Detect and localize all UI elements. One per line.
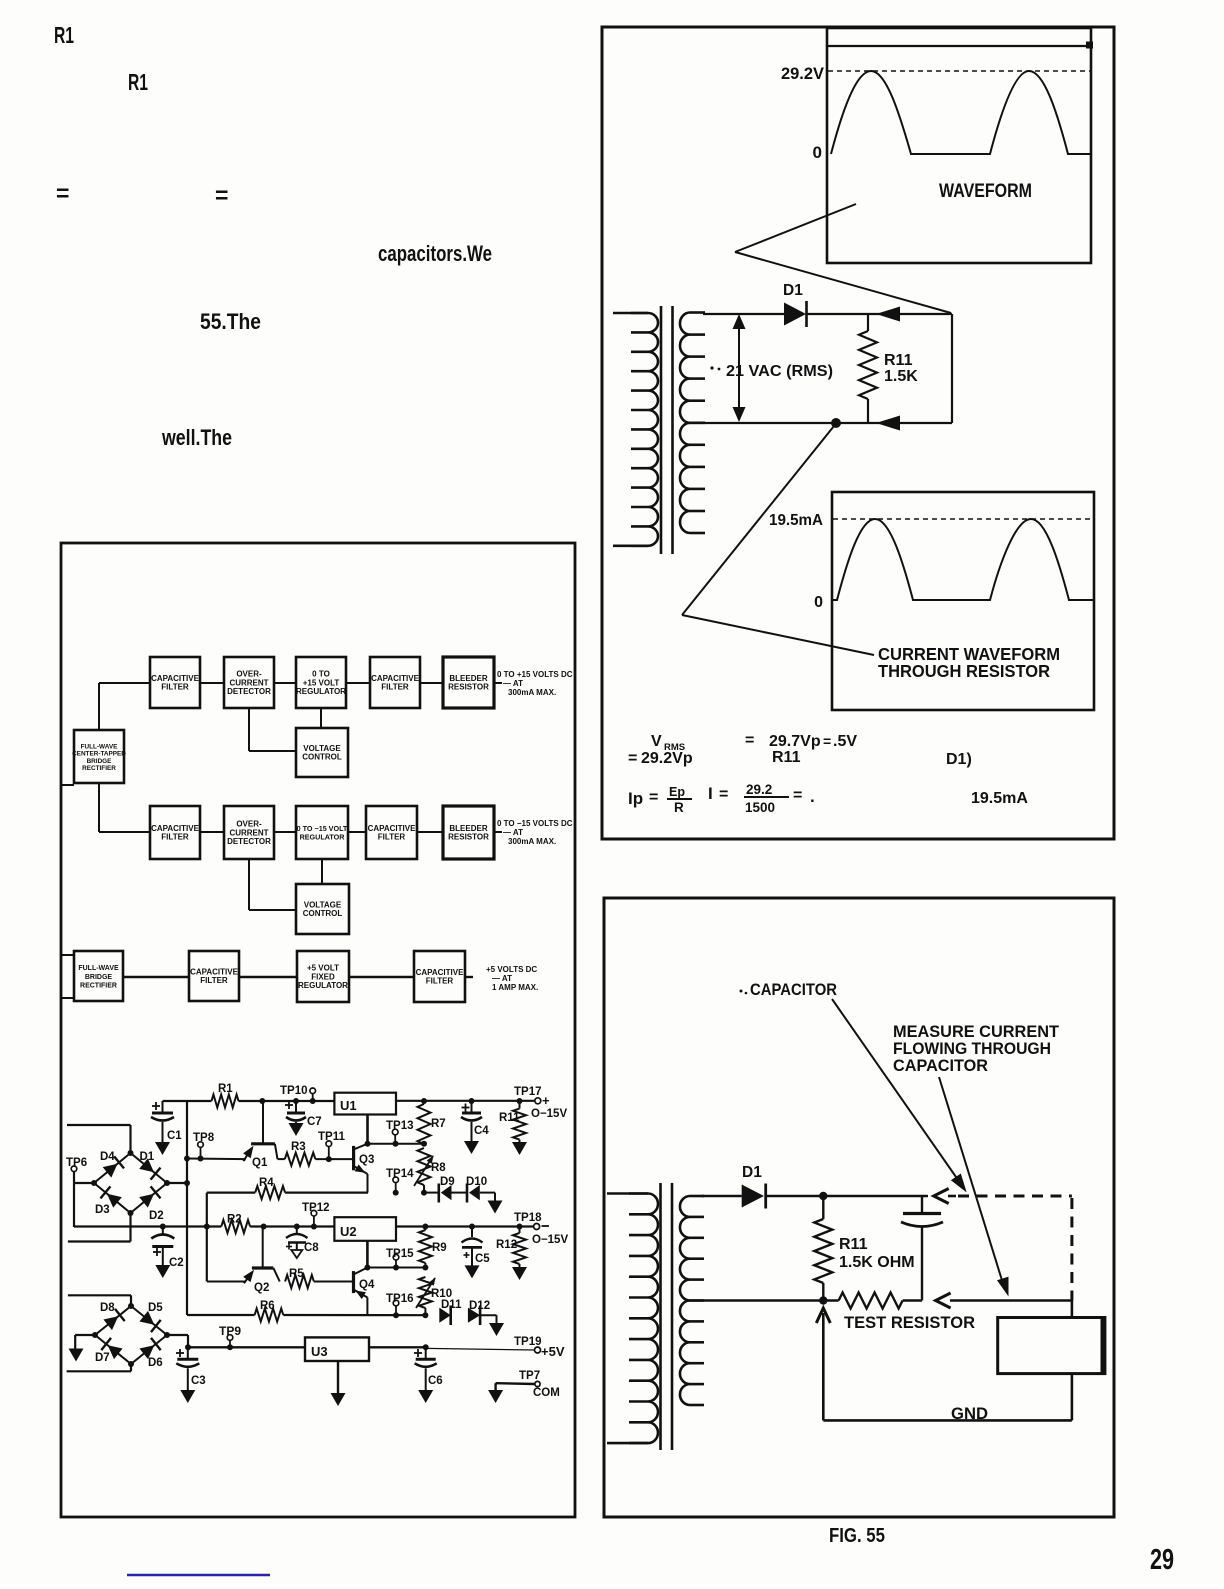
svg-text:Ep: Ep — [669, 785, 685, 799]
row3 left stubs — [61, 955, 74, 998]
block row1: voltage control — [296, 728, 348, 777]
svg-text:R1: R1 — [218, 1083, 233, 1095]
transistor Q3 — [354, 1115, 371, 1193]
label CAPACITOR — [740, 980, 838, 999]
svg-text:TP9: TP9 — [219, 1324, 241, 1338]
label GND — [951, 1404, 988, 1423]
label D7 — [95, 1352, 110, 1364]
main positive bus (vertical) — [186, 1101, 188, 1315]
svg-text:TP14: TP14 — [386, 1168, 414, 1180]
resistor R5 — [285, 1275, 353, 1288]
row1 output label 0 TO +15 VOLTS DC — [497, 670, 573, 697]
svg-text:— AT: — AT — [503, 828, 523, 837]
U3 ground — [331, 1361, 346, 1406]
svg-text:.: . — [810, 787, 815, 806]
bridge1 bottom stub — [68, 1213, 131, 1242]
svg-text:BRIDGE: BRIDGE — [87, 758, 113, 765]
svg-text:TEST RESISTOR: TEST RESISTOR — [844, 1313, 975, 1332]
label D1) — [946, 751, 972, 768]
svg-text:R11: R11 — [839, 1236, 868, 1253]
bridge rectifier diodes D5-D8 (diamond) — [92, 1303, 170, 1367]
svg-text:R6: R6 — [260, 1300, 275, 1312]
diode D1 (fig C) — [742, 1184, 766, 1209]
svg-text:D2: D2 — [149, 1210, 164, 1222]
capacitor C1 — [151, 1101, 182, 1155]
svg-text:R1: R1 — [128, 69, 148, 95]
label Q3 — [359, 1154, 374, 1166]
svg-text:FIG. 55: FIG. 55 — [829, 1525, 885, 1547]
svg-text:1.5K: 1.5K — [884, 368, 918, 385]
svg-text:TP18: TP18 — [514, 1212, 542, 1224]
transformer T1 secondary winding — [680, 313, 705, 534]
text fragment well.The — [161, 425, 232, 450]
bridge1 top stub to transformer — [67, 1125, 131, 1153]
svg-text:TP6: TP6 — [66, 1157, 87, 1169]
svg-text:R11: R11 — [772, 749, 801, 766]
resistor R11 (fig C) — [814, 1196, 832, 1301]
regulator U1 — [334, 1093, 396, 1115]
svg-text:DETECTOR: DETECTOR — [227, 687, 271, 696]
svg-text:0: 0 — [813, 143, 822, 162]
svg-text:C5: C5 — [475, 1253, 490, 1265]
resistor R4 — [207, 1186, 368, 1199]
svg-text:+: + — [542, 1093, 550, 1108]
block row1: 0 to +15 volt regulator — [296, 657, 346, 708]
label R11 1.5K — [884, 352, 918, 385]
svg-text:.5V: .5V — [833, 733, 857, 750]
transistor Q2 — [207, 1224, 280, 1284]
svg-text:D9: D9 — [440, 1176, 455, 1188]
svg-text:D1): D1) — [946, 751, 972, 768]
block row1: capacitive filter (output) — [370, 657, 420, 708]
svg-text:300mA MAX.: 300mA MAX. — [508, 688, 556, 697]
svg-text:FULL-WAVE: FULL-WAVE — [78, 965, 119, 972]
19.5mA dashed peak line — [833, 518, 1094, 520]
svg-text:D4: D4 — [100, 1151, 115, 1163]
wire: secondary to D1 — [702, 1195, 742, 1198]
capacitor (fig C) — [901, 1196, 943, 1301]
label R11 1.5K OHM — [839, 1236, 915, 1271]
svg-text:R: R — [674, 800, 684, 815]
wire: D1 cathode to right branch — [807, 313, 953, 315]
ground after D12 — [480, 1315, 504, 1336]
text fragment = (second) — [215, 182, 228, 208]
test point TP6 — [66, 1157, 94, 1227]
svg-text:TP13: TP13 — [386, 1120, 414, 1132]
svg-text:R5: R5 — [289, 1268, 304, 1280]
text fragment R1 (second) — [128, 69, 148, 95]
svg-text:=: = — [719, 786, 728, 803]
svg-text:— AT: — AT — [503, 679, 523, 688]
TP15 rail — [367, 1267, 425, 1269]
test point TP16 — [386, 1293, 414, 1318]
svg-text:C7: C7 — [307, 1116, 322, 1128]
svg-text:REGULATOR: REGULATOR — [298, 981, 348, 990]
svg-text:D8: D8 — [100, 1302, 115, 1314]
label D1 (fig C) — [742, 1164, 762, 1181]
svg-text:RESISTOR: RESISTOR — [448, 683, 489, 692]
svg-text:=: = — [793, 787, 802, 804]
block: full-wave center-tapped bridge rectifier — [72, 730, 126, 783]
svg-text:Ip: Ip — [628, 789, 643, 808]
svg-text:=: = — [823, 733, 831, 749]
29.2V dashed peak line — [828, 70, 1091, 72]
diode D9 — [421, 1184, 452, 1203]
label R12 — [496, 1239, 517, 1251]
svg-text:C3: C3 — [191, 1375, 206, 1387]
svg-text:TP12: TP12 — [302, 1202, 330, 1214]
svg-text:D3: D3 — [95, 1204, 110, 1216]
svg-text:R3: R3 — [291, 1141, 306, 1153]
resistor R1 — [212, 1095, 239, 1108]
capacitor C7 — [285, 1098, 322, 1136]
svg-text:D7: D7 — [95, 1352, 110, 1364]
svg-text:I: I — [708, 784, 713, 803]
svg-text:TP7: TP7 — [519, 1370, 540, 1382]
label 0 (current) — [814, 594, 823, 611]
svg-text:TP19: TP19 — [514, 1336, 542, 1348]
label R10 — [431, 1288, 452, 1300]
svg-text:FILTER: FILTER — [378, 833, 406, 842]
rail U2 output — [396, 1225, 534, 1227]
current waveform scope box — [832, 492, 1094, 710]
block row1: capacitive filter — [150, 657, 200, 708]
label Q1 — [252, 1157, 268, 1169]
svg-text:29.2V: 29.2V — [781, 64, 825, 83]
svg-text:WAVEFORM: WAVEFORM — [939, 181, 1032, 202]
label R8 — [431, 1162, 446, 1174]
label D3 — [95, 1204, 110, 1216]
svg-text:+5 VOLTS DC: +5 VOLTS DC — [486, 965, 537, 974]
svg-text:D11: D11 — [441, 1299, 462, 1311]
equation Vrms = 29.2Vp — [628, 733, 693, 767]
label R9 — [432, 1242, 447, 1254]
transformer T2 primary winding — [607, 1194, 658, 1444]
diode D1 — [784, 301, 807, 327]
svg-text:29.2: 29.2 — [746, 782, 772, 797]
transformer T1 core — [661, 306, 673, 554]
label Q4 — [359, 1279, 375, 1291]
text fragment capacitors.We — [378, 241, 492, 266]
label D6 — [148, 1357, 163, 1369]
label R11 — [499, 1112, 520, 1124]
wire meter to dashed path — [1071, 1301, 1074, 1318]
block row3: full-wave bridge rectifier — [74, 951, 123, 1001]
diode D10 — [452, 1184, 496, 1203]
rail U1 output — [396, 1100, 535, 1102]
svg-text:0 TO +15 VOLTS DC: 0 TO +15 VOLTS DC — [497, 670, 573, 679]
equation = 29.7Vp = .5V over R11 — [745, 732, 857, 766]
label D8 — [100, 1302, 115, 1314]
rail to R7/C4/TP17 components — [469, 1098, 523, 1104]
transformer T1 primary winding — [613, 313, 658, 546]
svg-text:C6: C6 — [428, 1375, 443, 1387]
svg-text:FILTER: FILTER — [426, 977, 454, 986]
caption FIG. 55 — [829, 1525, 885, 1547]
block row2: bleeder resistor — [443, 806, 494, 859]
svg-text:U1: U1 — [340, 1098, 357, 1113]
block row2: 0 to -15 volt regulator — [296, 806, 348, 859]
svg-text:CAPACITOR: CAPACITOR — [750, 980, 837, 999]
test point TP9 — [219, 1324, 241, 1350]
svg-text:R4: R4 — [259, 1177, 274, 1189]
svg-text:D1: D1 — [783, 282, 803, 299]
test point TP18 — [514, 1212, 568, 1246]
label TEST RESISTOR — [844, 1313, 975, 1332]
svg-text:D1: D1 — [140, 1151, 155, 1163]
bridge1 right corner to bus — [167, 1180, 190, 1186]
regulator U2 — [334, 1217, 396, 1241]
R6 rail — [187, 1314, 255, 1316]
GND return wire — [823, 1374, 1072, 1421]
svg-text:TP8: TP8 — [193, 1132, 215, 1144]
label R4 — [259, 1177, 274, 1189]
transformer T2 secondary winding — [680, 1196, 704, 1405]
label D10 — [466, 1176, 487, 1188]
capacitor C8 — [286, 1224, 319, 1259]
svg-text:R1: R1 — [54, 22, 74, 48]
label D1 — [783, 282, 803, 299]
svg-text:well.The: well.The — [161, 425, 232, 450]
current waveform trace — [833, 519, 1094, 600]
svg-text:Q1: Q1 — [252, 1157, 268, 1169]
label D4 — [100, 1151, 115, 1163]
callout lines to current waveform box — [682, 426, 874, 655]
block row1: over-current detector — [224, 657, 274, 708]
junction node — [831, 418, 841, 428]
svg-text:R12: R12 — [496, 1239, 517, 1251]
svg-text:C4: C4 — [474, 1125, 489, 1137]
capacitor C4 — [461, 1101, 489, 1154]
svg-text:1500: 1500 — [745, 800, 775, 815]
svg-text:GND: GND — [951, 1404, 988, 1423]
test point TP7 COM — [488, 1370, 560, 1403]
svg-text:Q2: Q2 — [254, 1282, 269, 1294]
test point TP11 — [318, 1131, 345, 1162]
figure box B border — [61, 543, 575, 1517]
svg-text:29.2Vp: 29.2Vp — [641, 750, 693, 767]
blue underline mark — [127, 1574, 270, 1576]
svg-text:=: = — [628, 750, 637, 767]
svg-text:O−15V: O−15V — [531, 1108, 567, 1120]
svg-text:CAPACITOR: CAPACITOR — [893, 1056, 988, 1075]
test point TP19 +5V — [514, 1336, 565, 1359]
label D9 — [440, 1176, 455, 1188]
svg-text:29: 29 — [1150, 1544, 1174, 1576]
svg-text:DETECTOR: DETECTOR — [227, 837, 271, 846]
label R2 — [227, 1214, 242, 1226]
svg-text:CONTROL: CONTROL — [302, 753, 342, 762]
label R5 — [289, 1268, 304, 1280]
svg-text:D1: D1 — [742, 1164, 762, 1181]
waveform scope box — [827, 28, 1093, 263]
svg-text:CENTER-TAPPED: CENTER-TAPPED — [72, 751, 126, 758]
svg-text:COM: COM — [533, 1387, 560, 1399]
+5V rail — [188, 1346, 305, 1348]
svg-text:29.7Vp: 29.7Vp — [769, 733, 821, 750]
svg-text:REGULATOR: REGULATOR — [300, 833, 346, 842]
svg-text:D12: D12 — [469, 1300, 490, 1312]
test point TP12 — [302, 1202, 330, 1230]
label D2 — [149, 1210, 164, 1222]
dashed measurement path — [958, 1196, 1072, 1301]
page number 29 — [1150, 1544, 1174, 1576]
svg-text:O−15V: O−15V — [532, 1234, 568, 1246]
arrow into top node — [934, 1189, 956, 1204]
test point TP17 — [514, 1086, 567, 1120]
row1 wires — [99, 683, 502, 751]
test point TP8 — [193, 1132, 215, 1162]
svg-text:FILTER: FILTER — [200, 976, 228, 985]
resistor R3 — [285, 1153, 354, 1166]
svg-text:+5V: +5V — [541, 1344, 565, 1359]
resistor R12 — [512, 1224, 527, 1281]
svg-text:C2: C2 — [169, 1257, 184, 1269]
svg-text:CONTROL: CONTROL — [303, 909, 343, 918]
test point TP13 — [386, 1120, 414, 1147]
svg-text:=: = — [745, 732, 754, 749]
svg-text:BRIDGE: BRIDGE — [85, 974, 113, 981]
bridge2 left ground — [69, 1335, 96, 1362]
svg-text:— AT: — AT — [492, 974, 512, 983]
TP8 rail — [184, 1156, 285, 1162]
wire: bottom return to secondary tap — [688, 422, 952, 424]
test point TP15 — [386, 1248, 414, 1271]
diode D12 — [468, 1306, 480, 1326]
svg-text:Q3: Q3 — [359, 1154, 374, 1166]
block row2: capacitive filter (output) — [366, 806, 417, 859]
figure box A border — [602, 27, 1114, 839]
svg-text:FILTER: FILTER — [161, 833, 189, 842]
svg-text:21 VAC (RMS): 21 VAC (RMS) — [726, 363, 833, 380]
svg-text:FILTER: FILTER — [381, 683, 409, 692]
transformer T2 core — [661, 1183, 673, 1450]
label 29.2V — [781, 64, 825, 83]
svg-text:1.5K OHM: 1.5K OHM — [839, 1254, 915, 1271]
svg-text:REGULATOR: REGULATOR — [296, 687, 346, 696]
svg-text:V: V — [651, 733, 662, 750]
equation I = 29.2/1500 = . — [708, 782, 815, 815]
row1 left stub — [61, 784, 74, 786]
meter box — [998, 1318, 1105, 1374]
label 19.5mA — [769, 512, 823, 529]
svg-text:R7: R7 — [431, 1118, 446, 1130]
label WAVEFORM — [939, 181, 1032, 202]
svg-text:capacitors.We: capacitors.We — [378, 241, 492, 266]
variable resistor R10 — [416, 1277, 436, 1315]
svg-text:55.The: 55.The — [200, 309, 261, 334]
label MEASURE CURRENT FLOWING THROUGH CAPACITOR — [893, 1022, 1060, 1075]
bridge2 top stub — [68, 1295, 131, 1306]
svg-text:TP10: TP10 — [280, 1085, 308, 1097]
label Q2 — [254, 1282, 269, 1294]
svg-text:RECTIFIER: RECTIFIER — [82, 765, 116, 772]
svg-text:R8: R8 — [431, 1162, 446, 1174]
right branch wire with arrows — [876, 307, 952, 431]
label 0 (voltage) — [813, 143, 822, 162]
svg-text:R2: R2 — [227, 1214, 242, 1226]
svg-text:C8: C8 — [304, 1242, 319, 1254]
label D1 (bridge) — [140, 1151, 155, 1163]
transistor Q4 — [354, 1241, 371, 1315]
text fragment 55.The — [200, 309, 261, 334]
capacitor C3 — [176, 1347, 206, 1403]
svg-text:19.5mA: 19.5mA — [971, 790, 1028, 807]
regulator U3 — [305, 1337, 369, 1361]
svg-text:C1: C1 — [167, 1130, 182, 1142]
test point TP10 — [280, 1085, 316, 1104]
test point TP14 — [386, 1168, 414, 1196]
arrow into bottom node — [936, 1293, 1072, 1308]
svg-text:=: = — [56, 180, 69, 206]
bottom wire with test resistor — [688, 1293, 922, 1309]
resistor R11 (fig A) — [859, 314, 877, 423]
thin wire to TP19 — [426, 1348, 535, 1350]
label R1 — [218, 1083, 233, 1095]
variable resistor R8 — [414, 1141, 434, 1193]
svg-text:THROUGH RESISTOR: THROUGH RESISTOR — [878, 661, 1050, 681]
svg-text:R9: R9 — [432, 1242, 447, 1254]
svg-text:D5: D5 — [148, 1302, 163, 1314]
svg-text:1 AMP MAX.: 1 AMP MAX. — [492, 983, 538, 992]
block row3: capacitive filter (output) — [414, 951, 465, 1002]
svg-text:TP15: TP15 — [386, 1248, 414, 1260]
block row2: voltage control — [296, 884, 349, 934]
resistor R7 — [418, 1098, 431, 1144]
svg-text:D6: D6 — [148, 1357, 163, 1369]
svg-text:TP17: TP17 — [514, 1086, 542, 1098]
capacitor C2 — [151, 1224, 183, 1279]
measurement double arrow 21VAC — [733, 314, 746, 422]
row3 output label +5 VOLTS DC — [486, 965, 538, 992]
resistor R9 — [419, 1224, 432, 1271]
svg-text:U3: U3 — [311, 1344, 328, 1359]
leader line from CAPACITOR — [832, 999, 967, 1193]
capacitor C5 — [462, 1224, 491, 1279]
label D12 — [469, 1300, 490, 1312]
wire: D1 to capacitor branch — [766, 1192, 928, 1200]
label R3 — [291, 1141, 306, 1153]
diode D11 — [422, 1306, 450, 1326]
svg-text:U2: U2 — [340, 1224, 357, 1239]
block row2: over-current detector — [224, 806, 274, 859]
bridge rectifier diodes D1-D4 (diamond) — [91, 1150, 170, 1216]
up arrow from ground loop — [816, 1308, 830, 1420]
capacitor C6 — [414, 1344, 443, 1403]
row2 wires — [99, 783, 502, 910]
resistor R6 — [255, 1309, 426, 1322]
R4 rail branch vertical — [204, 1193, 210, 1282]
svg-text:0 TO −15 VOLTS DC: 0 TO −15 VOLTS DC — [497, 819, 573, 828]
label D11 — [441, 1299, 462, 1311]
svg-text:FILTER: FILTER — [161, 683, 189, 692]
transistor Q1 — [243, 1098, 277, 1161]
bridge2 right corner to +5V rail — [167, 1335, 191, 1350]
label R6 — [260, 1300, 275, 1312]
block row1: bleeder resistor — [443, 657, 494, 708]
label R7 — [431, 1118, 446, 1130]
svg-text:=: = — [215, 182, 228, 208]
label 21 VAC (RMS) — [710, 363, 833, 380]
block row2: capacitive filter — [150, 806, 200, 859]
text fragment R1 — [54, 22, 74, 48]
row2 output label 0 TO -15 VOLTS DC — [497, 819, 573, 846]
bridge2 bottom stub — [67, 1364, 131, 1371]
svg-text:TP16: TP16 — [386, 1293, 414, 1305]
label 19.5mA (result) — [971, 790, 1028, 807]
equation Ip = Ep/R — [628, 785, 692, 815]
svg-text:R11: R11 — [499, 1112, 520, 1124]
